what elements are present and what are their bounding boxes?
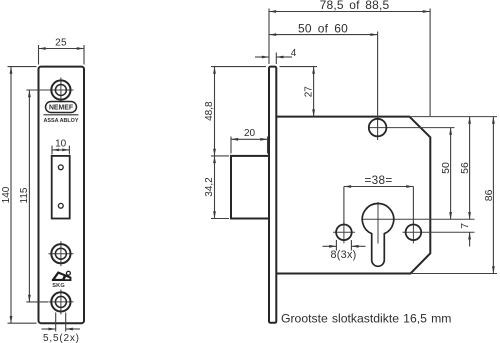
- lock case outline: [276, 117, 430, 274]
- svg-text:SKG: SKG: [52, 283, 65, 289]
- dimension 115: [26, 90, 48, 302]
- bolt holes centerline extension: [424, 231, 475, 233]
- screw hole top: [51, 80, 70, 99]
- dimension 34,2: [211, 156, 229, 219]
- slot pin hole upper: [58, 165, 63, 170]
- dimension 78,5 of 88,5: [269, 9, 430, 117]
- svg-text:140: 140: [1, 186, 12, 203]
- screw hole middle: [51, 244, 70, 263]
- dimension 50: [450, 128, 452, 220]
- dimension 20 (bolt throw): [231, 137, 268, 154]
- NEMEF trademark rule: [44, 114, 79, 116]
- screw hole top centerlines: [48, 78, 74, 103]
- bottom edge extension line: [411, 273, 497, 275]
- svg-text:25: 25: [55, 38, 67, 49]
- screw hole middle centerlines: [48, 241, 73, 266]
- euro cylinder profile: [362, 204, 394, 267]
- dimension 86: [492, 117, 494, 274]
- faceplate outline: [39, 67, 85, 324]
- svg-text:ASSA ABLOY: ASSA ABLOY: [44, 118, 79, 124]
- svg-text:8(3x): 8(3x): [330, 249, 356, 261]
- dimension 10 (bolt slot): [52, 146, 69, 155]
- SKG mark: [52, 271, 72, 281]
- fixing hole left: [336, 225, 352, 241]
- svg-text:27: 27: [303, 86, 314, 98]
- NEMEF logo oval: [46, 102, 77, 113]
- follower hole: [369, 119, 387, 137]
- svg-text:NEMEF: NEMEF: [49, 105, 73, 112]
- svg-text:5,5(2x): 5,5(2x): [43, 333, 80, 343]
- top edge extension line: [409, 116, 497, 118]
- dimension =38=: [344, 187, 414, 224]
- slot pin hole lower: [58, 203, 63, 208]
- screw hole bottom: [51, 292, 70, 311]
- svg-text:50: 50: [440, 162, 452, 174]
- euro cylinder centerline vertical: [377, 202, 379, 244]
- svg-text:Grootste slotkastdikte 16,5 mm: Grootste slotkastdikte 16,5 mm: [281, 312, 451, 326]
- fixing hole left centerlines: [333, 221, 355, 243]
- forend strip: [269, 67, 276, 323]
- dimension 7: [469, 232, 471, 246]
- svg-text:50 of 60: 50 of 60: [298, 22, 348, 36]
- svg-text:4: 4: [291, 48, 297, 59]
- svg-text:20: 20: [244, 128, 256, 139]
- svg-text:48,8: 48,8: [204, 101, 215, 121]
- dimension 140: [8, 67, 37, 324]
- dimension 4 (forend thickness): [255, 53, 292, 65]
- svg-text:10: 10: [55, 139, 67, 150]
- screw hole bottom centerlines: [48, 289, 73, 314]
- dimension 48,8: [211, 67, 266, 156]
- bolt slot cutout: [52, 156, 70, 219]
- svg-text:7: 7: [459, 223, 471, 229]
- svg-text:=38=: =38=: [364, 173, 392, 187]
- deadbolt: [231, 156, 269, 219]
- svg-text:86: 86: [483, 189, 495, 201]
- dimension 8(3x): [323, 240, 366, 251]
- cylinder centerline horizontal: [362, 218, 475, 220]
- fixing hole right centerlines: [403, 221, 425, 243]
- follower hole centerline horizontal: [368, 127, 455, 129]
- svg-text:115: 115: [19, 187, 30, 203]
- svg-text:56: 56: [459, 162, 471, 174]
- svg-text:34,2: 34,2: [204, 177, 215, 197]
- dimension 56: [469, 117, 471, 220]
- dimension 50 of 60: [269, 32, 378, 141]
- fixing hole right: [406, 225, 422, 241]
- svg-text:78,5 of 88,5: 78,5 of 88,5: [320, 0, 390, 12]
- dimension 25 dim line: [39, 45, 85, 65]
- dimension 5,5(2x): [42, 313, 80, 332]
- dimension 27: [280, 67, 318, 117]
